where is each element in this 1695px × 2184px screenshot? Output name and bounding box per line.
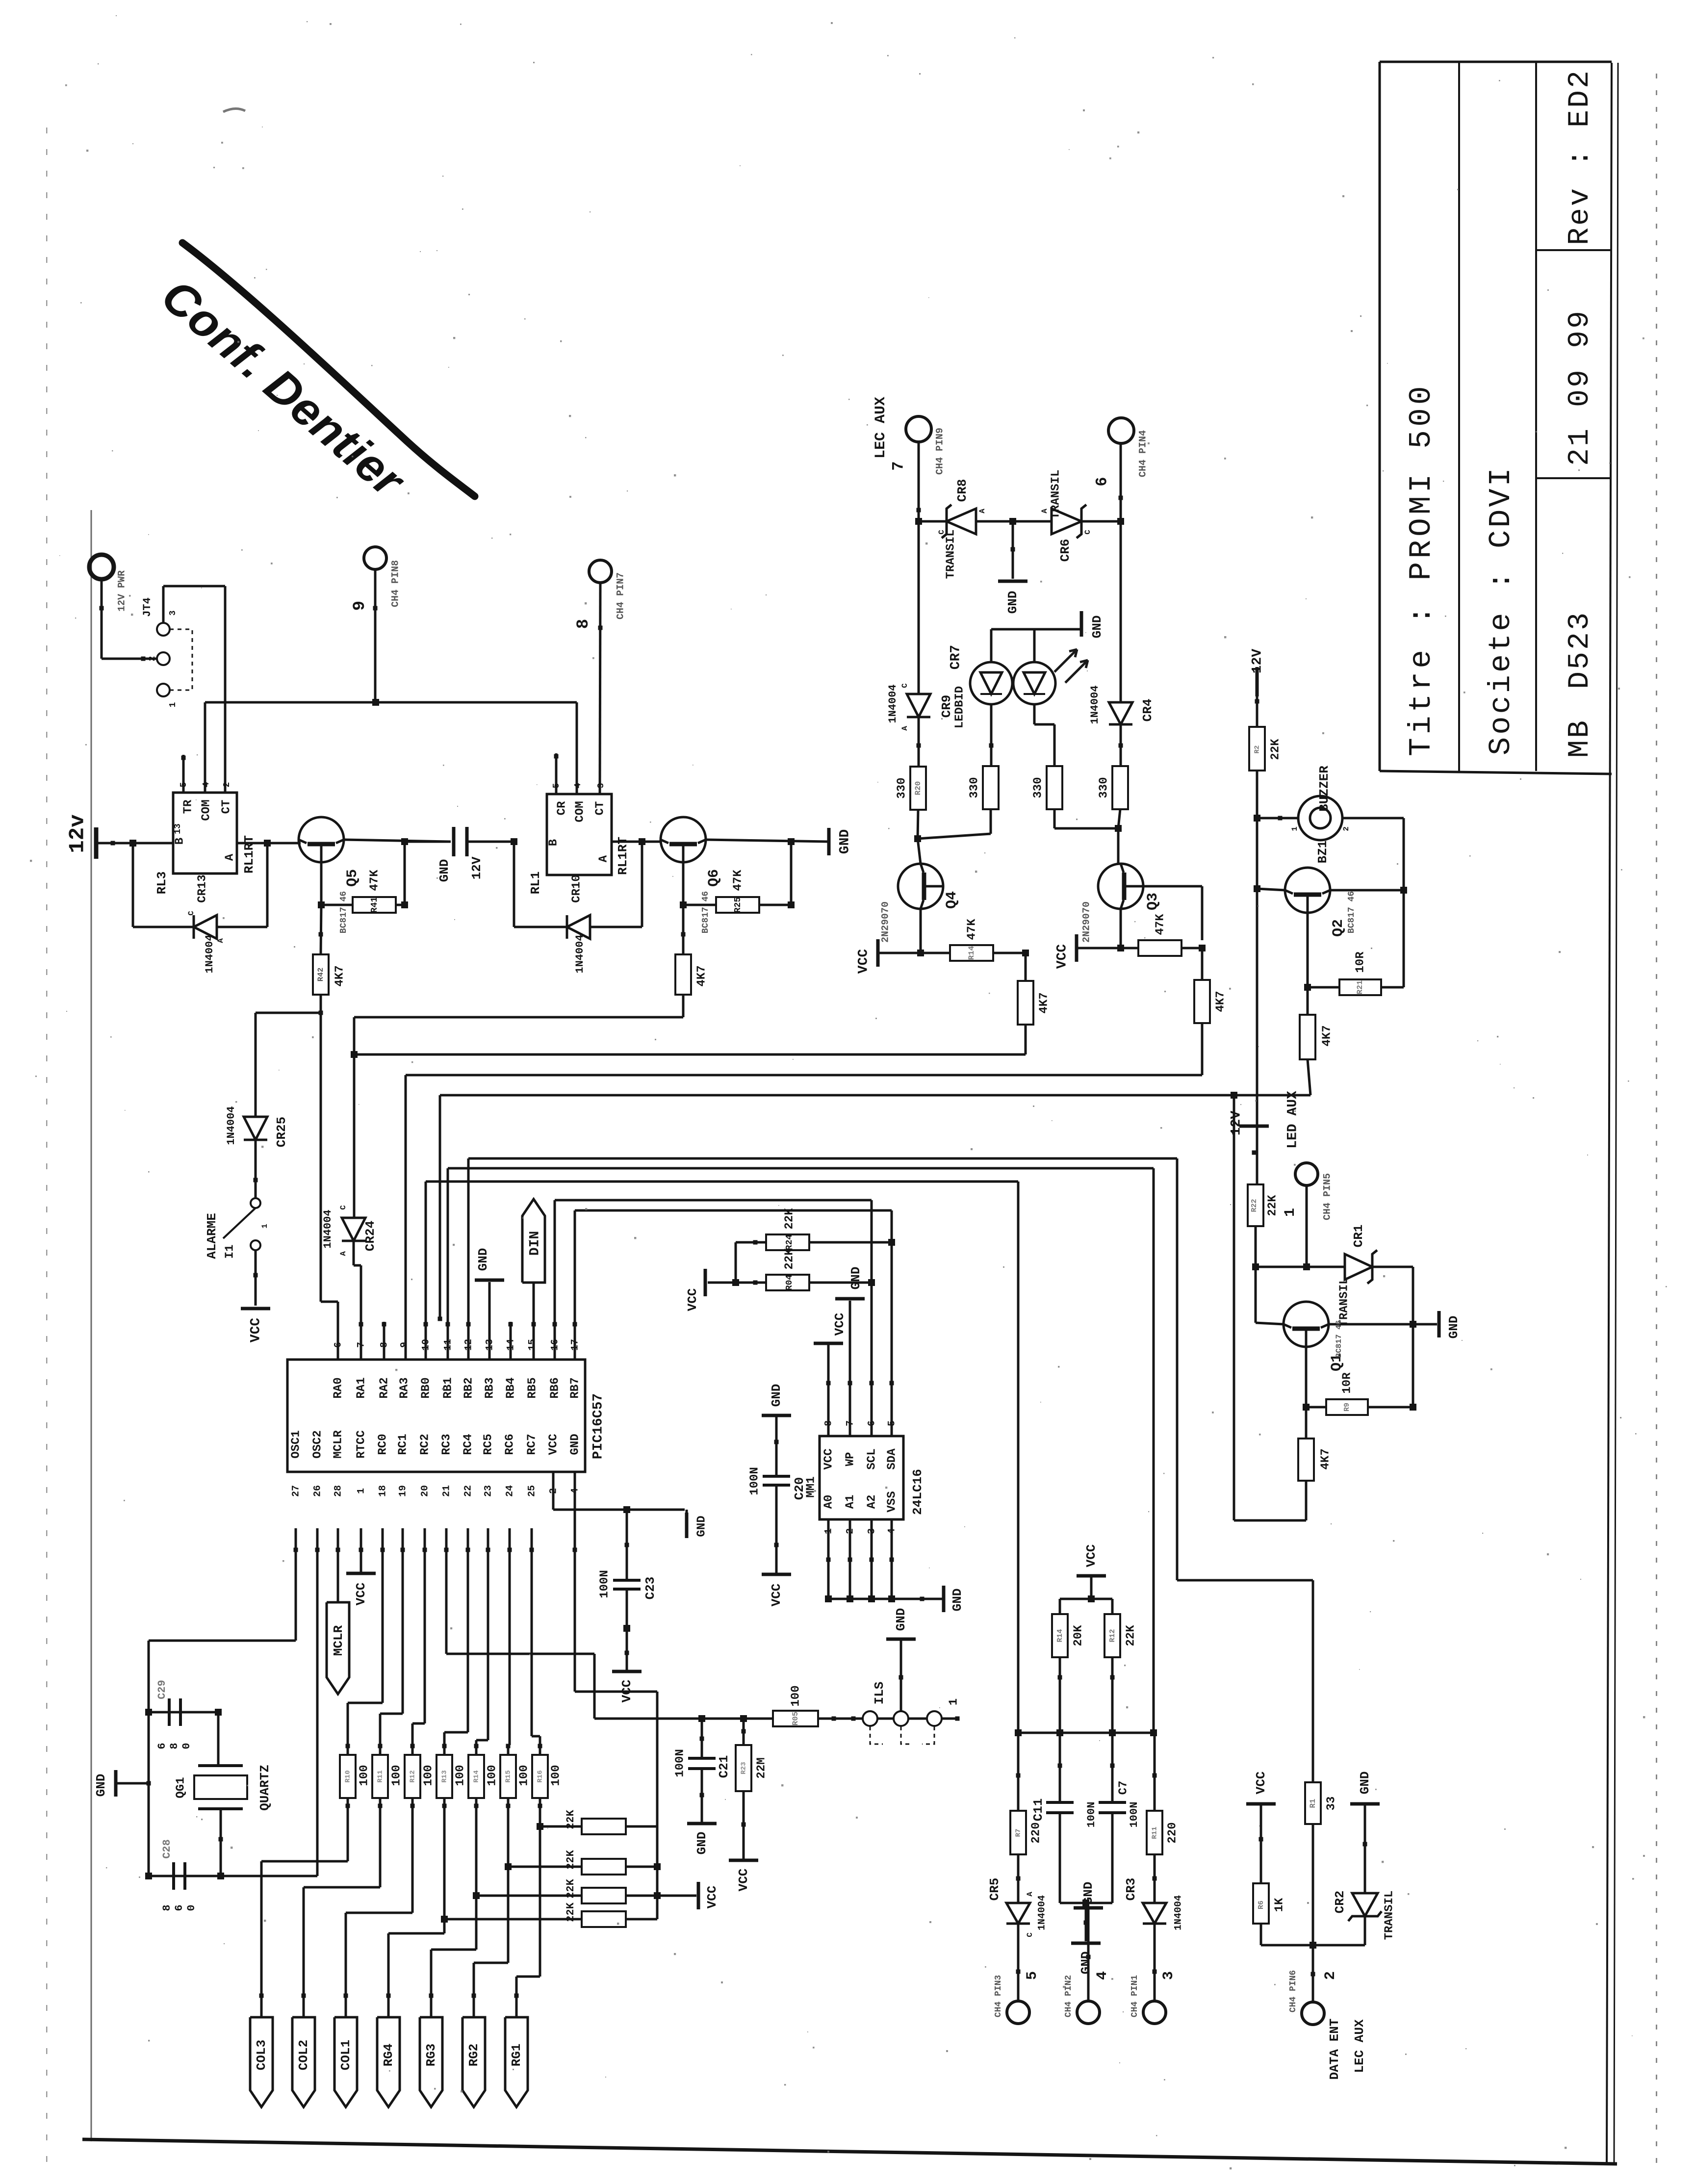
svg-text:2: 2 (222, 782, 232, 788)
svg-text:0: 0 (185, 1904, 198, 1911)
svg-text:R22: R22 (1250, 1199, 1258, 1212)
svg-text:RB2: RB2 (462, 1377, 475, 1398)
svg-text:COM: COM (573, 801, 587, 822)
svg-text:4: 4 (573, 783, 583, 788)
svg-text:R12: R12 (409, 1770, 417, 1782)
svg-text:1N4004: 1N4004 (1173, 1895, 1184, 1930)
svg-text:2N29070: 2N29070 (1081, 901, 1092, 943)
svg-text:22K: 22K (1269, 739, 1282, 760)
svg-text:330: 330 (1097, 777, 1110, 798)
svg-text:10: 10 (420, 1339, 432, 1351)
svg-text:1N4004: 1N4004 (204, 934, 216, 973)
svg-text:A2: A2 (865, 1495, 878, 1509)
svg-text:QUARTZ: QUARTZ (257, 1765, 272, 1811)
svg-text:R15: R15 (505, 1770, 513, 1782)
svg-text:CR24: CR24 (363, 1221, 378, 1251)
svg-text:CR8: CR8 (955, 479, 970, 502)
svg-text:A: A (1026, 1892, 1034, 1897)
svg-text:7: 7 (889, 461, 907, 470)
svg-text:100N: 100N (673, 1749, 687, 1777)
svg-text:Q4: Q4 (944, 891, 960, 909)
svg-text:CR9: CR9 (939, 695, 954, 718)
svg-text:1N4004: 1N4004 (1089, 685, 1101, 724)
svg-text:100N: 100N (1128, 1802, 1140, 1828)
svg-text:1: 1 (947, 1698, 960, 1705)
svg-text:RB0: RB0 (419, 1377, 433, 1398)
svg-text:100: 100 (390, 1765, 403, 1786)
svg-text:4: 4 (202, 782, 211, 787)
svg-text:CH4 PIN2: CH4 PIN2 (1064, 1975, 1074, 2017)
svg-text:R24: R24 (785, 1234, 795, 1251)
svg-text:CR10: CR10 (570, 874, 583, 903)
svg-text:VCC: VCC (822, 1448, 835, 1469)
svg-text:33: 33 (1325, 1797, 1338, 1811)
svg-text:C21: C21 (717, 1755, 731, 1778)
svg-text:100N: 100N (1085, 1802, 1098, 1828)
svg-text:A: A (900, 726, 909, 731)
svg-text:BC817 46: BC817 46 (339, 891, 349, 933)
svg-text:R12: R12 (1108, 1629, 1117, 1642)
svg-text:12V: 12V (1250, 649, 1265, 674)
svg-text:R16: R16 (537, 1770, 544, 1782)
svg-text:2: 2 (148, 656, 157, 662)
svg-text:GND: GND (837, 829, 852, 854)
svg-text:TRANSIL: TRANSIL (1383, 1891, 1396, 1940)
svg-text:VCC: VCC (705, 1886, 719, 1909)
svg-text:CR13: CR13 (196, 874, 209, 903)
svg-text:R04: R04 (785, 1275, 795, 1291)
svg-text:Q3: Q3 (1145, 893, 1161, 910)
svg-text:C23: C23 (643, 1577, 658, 1600)
svg-text:20K: 20K (1072, 1625, 1085, 1646)
svg-text:SCL: SCL (865, 1448, 878, 1469)
svg-text:C11: C11 (1031, 1799, 1046, 1822)
svg-text:GND: GND (476, 1248, 490, 1271)
svg-text:VCC: VCC (1084, 1544, 1099, 1567)
svg-text:220: 220 (1166, 1822, 1179, 1843)
svg-text:1N4004: 1N4004 (1036, 1895, 1048, 1930)
svg-text:R14: R14 (1056, 1629, 1064, 1642)
svg-text:22K: 22K (1266, 1195, 1279, 1216)
svg-text:COL1: COL1 (338, 2040, 353, 2070)
svg-text:8: 8 (574, 619, 593, 629)
svg-text:R9: R9 (1343, 1403, 1351, 1412)
svg-text:8: 8 (168, 1743, 180, 1749)
svg-text:C: C (187, 911, 196, 916)
svg-text:GND: GND (848, 1267, 863, 1290)
svg-text:VCC: VCC (354, 1583, 368, 1606)
svg-text:3: 3 (1160, 1971, 1177, 1980)
svg-text:A: A (223, 853, 236, 861)
svg-text:VCC: VCC (685, 1288, 700, 1311)
svg-text:CT: CT (220, 800, 233, 814)
svg-text:MB: MB (1564, 719, 1597, 758)
svg-text:12V: 12V (1229, 1111, 1244, 1136)
svg-text:C: C (900, 683, 909, 688)
svg-text:GND: GND (1079, 1952, 1093, 1975)
svg-text:R13: R13 (441, 1770, 449, 1782)
svg-text:100: 100 (486, 1765, 499, 1786)
svg-text:CR3: CR3 (1124, 1878, 1138, 1901)
svg-text:GND: GND (437, 859, 452, 882)
svg-text:C: C (1026, 1932, 1034, 1937)
svg-text:47K: 47K (1154, 914, 1167, 935)
svg-text:10R: 10R (1354, 951, 1367, 973)
svg-text:Q6: Q6 (706, 869, 722, 887)
svg-text:100: 100 (422, 1765, 435, 1786)
svg-text:ILS: ILS (872, 1682, 887, 1705)
svg-text:B: B (173, 838, 186, 845)
svg-text:6: 6 (866, 1420, 877, 1426)
svg-text:TR: TR (181, 799, 195, 814)
svg-text:22M: 22M (755, 1757, 768, 1778)
svg-text:20: 20 (419, 1485, 431, 1497)
svg-text:ALARME: ALARME (205, 1213, 219, 1259)
svg-text:MCLR: MCLR (331, 1625, 346, 1656)
svg-text:DIN: DIN (527, 1231, 542, 1256)
svg-text:CH4 PIN1: CH4 PIN1 (1130, 1975, 1140, 2018)
svg-text:BC817 46: BC817 46 (701, 891, 711, 933)
svg-text:23: 23 (483, 1485, 494, 1497)
svg-text:RA1: RA1 (355, 1377, 368, 1398)
svg-text:RB4: RB4 (504, 1377, 517, 1398)
svg-text:A0: A0 (822, 1495, 835, 1509)
svg-text:CH4 PIN8: CH4 PIN8 (390, 560, 401, 607)
svg-text:Titre : PROMI 500: Titre : PROMI 500 (1404, 383, 1439, 756)
svg-text:19: 19 (397, 1485, 409, 1497)
svg-text:5: 5 (552, 783, 562, 789)
svg-text:22K: 22K (783, 1248, 796, 1270)
svg-text:GND: GND (769, 1384, 784, 1407)
svg-text:CR1: CR1 (1351, 1225, 1366, 1248)
svg-text:9: 9 (351, 601, 369, 611)
svg-text:4K7: 4K7 (695, 965, 708, 986)
svg-text:RC6: RC6 (503, 1434, 516, 1455)
svg-text:Q2: Q2 (1330, 919, 1347, 937)
svg-text:CH4 PIN9: CH4 PIN9 (934, 428, 946, 475)
svg-text:26: 26 (312, 1485, 323, 1497)
svg-text:22: 22 (462, 1485, 474, 1497)
svg-text:VCC: VCC (769, 1584, 784, 1607)
svg-text:24: 24 (504, 1485, 515, 1497)
svg-text:R23: R23 (740, 1762, 748, 1774)
svg-text:6: 6 (333, 1342, 344, 1348)
svg-text:4K7: 4K7 (333, 965, 346, 986)
svg-text:A: A (978, 509, 987, 514)
svg-text:CR: CR (555, 801, 568, 815)
svg-text:I1: I1 (223, 1245, 236, 1259)
svg-text:GND: GND (950, 1589, 965, 1612)
svg-text:220: 220 (1029, 1822, 1043, 1843)
svg-text:28: 28 (333, 1485, 344, 1497)
svg-text:3: 3 (596, 783, 606, 789)
svg-text:4K7: 4K7 (1320, 1025, 1334, 1046)
svg-text:VCC: VCC (248, 1318, 263, 1343)
svg-text:1N4004: 1N4004 (225, 1106, 237, 1145)
svg-text:13: 13 (173, 823, 183, 834)
svg-text:CR6: CR6 (1058, 539, 1073, 562)
svg-text:1K: 1K (1273, 1898, 1286, 1912)
svg-text:21: 21 (441, 1485, 452, 1497)
svg-text:1N4004: 1N4004 (322, 1209, 334, 1248)
svg-text:RA2: RA2 (378, 1377, 391, 1398)
svg-text:R6: R6 (1257, 1901, 1265, 1909)
svg-text:CR7: CR7 (948, 645, 963, 669)
svg-text:LEC AUX: LEC AUX (873, 397, 889, 459)
svg-text:BC817 46: BC817 46 (1347, 891, 1357, 933)
svg-text:9: 9 (399, 1342, 410, 1348)
svg-text:R20: R20 (914, 781, 923, 796)
svg-text:GND: GND (1081, 1882, 1096, 1905)
svg-text:CH4 PIN4: CH4 PIN4 (1137, 430, 1149, 477)
svg-text:1N4004: 1N4004 (574, 934, 586, 973)
svg-text:GND: GND (695, 1516, 708, 1537)
svg-text:VCC: VCC (736, 1869, 751, 1892)
svg-text:RC3: RC3 (440, 1434, 453, 1455)
svg-text:12V PWR: 12V PWR (116, 570, 128, 612)
svg-text:330: 330 (968, 777, 981, 798)
svg-text:21 09 99: 21 09 99 (1564, 309, 1597, 466)
svg-text:4K7: 4K7 (1319, 1448, 1332, 1469)
svg-text:100: 100 (454, 1765, 467, 1786)
svg-text:22K: 22K (1124, 1625, 1137, 1646)
svg-text:8: 8 (161, 1904, 173, 1911)
svg-text:RB3: RB3 (483, 1377, 496, 1398)
svg-text:C: C (1083, 530, 1092, 535)
svg-text:OSC1: OSC1 (289, 1430, 303, 1459)
svg-text:RG3: RG3 (424, 2044, 438, 2067)
svg-text:LEDBID: LEDBID (953, 686, 966, 728)
svg-text:R1: R1 (1309, 1799, 1317, 1808)
svg-text:C29: C29 (156, 1680, 168, 1699)
svg-text:1: 1 (260, 1224, 269, 1229)
svg-text:JT4: JT4 (141, 597, 154, 617)
svg-text:330: 330 (1031, 777, 1045, 798)
svg-text:12V: 12V (469, 856, 484, 879)
svg-text:C20: C20 (792, 1477, 807, 1500)
svg-text:RG4: RG4 (381, 2044, 396, 2067)
svg-text:3: 3 (168, 611, 178, 616)
svg-text:VCC: VCC (1254, 1772, 1268, 1795)
svg-text:B: B (547, 839, 560, 846)
svg-text:1: 1 (1290, 826, 1299, 831)
svg-text:R25: R25 (733, 897, 743, 913)
svg-text:R10: R10 (344, 1770, 352, 1782)
svg-text:VCC: VCC (1054, 944, 1070, 969)
svg-text:A: A (1040, 509, 1049, 514)
svg-text:COM: COM (200, 799, 213, 821)
svg-text:C: C (339, 1205, 348, 1210)
svg-text:OSC2: OSC2 (311, 1430, 324, 1459)
svg-text:4K7: 4K7 (1037, 992, 1051, 1013)
svg-text:MCLR: MCLR (332, 1430, 345, 1459)
svg-text:CR25: CR25 (274, 1117, 289, 1147)
svg-text:RL1: RL1 (528, 872, 543, 895)
svg-text:TRANSIL: TRANSIL (1049, 470, 1062, 519)
svg-text:R05: R05 (791, 1712, 800, 1726)
svg-text:R14: R14 (967, 946, 976, 960)
svg-text:WP: WP (844, 1452, 857, 1466)
svg-text:RC5: RC5 (482, 1434, 495, 1455)
svg-text:RB6: RB6 (548, 1377, 562, 1398)
svg-text:18: 18 (377, 1485, 388, 1497)
svg-text:RC7: RC7 (525, 1434, 539, 1455)
svg-text:47K: 47K (965, 919, 978, 940)
svg-text:CR5: CR5 (987, 1878, 1002, 1901)
svg-text:CH4 PIN7: CH4 PIN7 (615, 572, 626, 619)
svg-text:BZ1: BZ1 (1315, 841, 1330, 864)
svg-text:QG1: QG1 (174, 1777, 187, 1798)
svg-text:1N4004: 1N4004 (887, 684, 899, 723)
svg-text:R7: R7 (1015, 1829, 1023, 1837)
svg-text:Q5: Q5 (344, 869, 361, 887)
svg-text:RA0: RA0 (332, 1377, 345, 1398)
svg-text:10R: 10R (1340, 1372, 1354, 1394)
svg-text:GND: GND (1090, 616, 1104, 639)
svg-text:D523: D523 (1564, 611, 1597, 689)
svg-text:6: 6 (1093, 477, 1111, 486)
svg-text:GND: GND (568, 1434, 582, 1455)
svg-text:25: 25 (526, 1485, 538, 1497)
svg-text:330: 330 (895, 777, 908, 798)
svg-text:A1: A1 (844, 1495, 857, 1509)
svg-text:100: 100 (517, 1765, 531, 1786)
svg-text:BC817 46: BC817 46 (1335, 1320, 1343, 1358)
svg-text:TRANSIL: TRANSIL (1337, 1278, 1351, 1327)
svg-text:100: 100 (789, 1685, 802, 1706)
svg-text:RB7: RB7 (568, 1377, 582, 1398)
svg-text:RC1: RC1 (396, 1434, 410, 1455)
svg-text:Rev : ED2: Rev : ED2 (1564, 69, 1597, 245)
svg-text:17: 17 (569, 1339, 581, 1351)
svg-text:24LC16: 24LC16 (910, 1469, 925, 1515)
svg-text:R21: R21 (1356, 980, 1364, 995)
svg-text:RL3: RL3 (154, 872, 169, 895)
svg-text:GND: GND (1005, 591, 1020, 614)
svg-text:2: 2 (1342, 826, 1351, 831)
svg-text:1: 1 (1282, 1208, 1299, 1217)
svg-text:C7: C7 (1117, 1781, 1130, 1795)
svg-text:RG1: RG1 (509, 2044, 524, 2067)
svg-text:2: 2 (1322, 1971, 1339, 1980)
svg-text:GND: GND (894, 1608, 908, 1631)
svg-text:100: 100 (549, 1765, 563, 1786)
svg-text:100N: 100N (748, 1467, 761, 1495)
svg-text:TRANSIL: TRANSIL (944, 530, 957, 579)
svg-text:DATA ENT: DATA ENT (1327, 2019, 1342, 2080)
svg-text:RG2: RG2 (466, 2044, 481, 2067)
svg-text:6: 6 (173, 1904, 185, 1911)
svg-text:GND: GND (94, 1774, 108, 1797)
svg-text:12v: 12v (66, 814, 90, 853)
svg-text:R41: R41 (370, 897, 380, 913)
svg-text:SDA: SDA (885, 1448, 899, 1470)
svg-text:16: 16 (549, 1339, 561, 1351)
svg-text:100: 100 (358, 1765, 371, 1786)
svg-text:LED AUX: LED AUX (1285, 1091, 1300, 1149)
svg-text:47K: 47K (368, 870, 381, 891)
svg-text:RB5: RB5 (526, 1377, 539, 1398)
svg-text:LEC AUX: LEC AUX (1352, 2019, 1367, 2073)
svg-text:2N29070: 2N29070 (880, 901, 891, 943)
svg-text:R42: R42 (316, 968, 325, 982)
svg-text:VCC: VCC (547, 1434, 560, 1455)
svg-text:11: 11 (442, 1339, 454, 1351)
svg-text:C28: C28 (161, 1839, 173, 1859)
svg-text:RC2: RC2 (418, 1434, 432, 1455)
svg-text:RC4: RC4 (462, 1434, 475, 1455)
svg-text:R14: R14 (473, 1770, 481, 1782)
svg-text:RTCC: RTCC (355, 1430, 368, 1459)
svg-text:BUZZER: BUZZER (1317, 766, 1332, 812)
svg-text:VSS: VSS (885, 1491, 899, 1512)
svg-text:100N: 100N (598, 1570, 611, 1598)
svg-text:Societe : CDVI: Societe : CDVI (1484, 465, 1518, 755)
svg-text:A: A (216, 938, 225, 943)
svg-text:22K: 22K (783, 1208, 796, 1230)
svg-text:VCC: VCC (856, 949, 871, 974)
svg-text:1: 1 (168, 702, 178, 707)
svg-text:5: 5 (1024, 1971, 1041, 1980)
svg-text:5: 5 (179, 782, 189, 788)
svg-text:27: 27 (290, 1485, 302, 1497)
svg-text:CT: CT (593, 801, 607, 816)
svg-text:R2: R2 (1254, 745, 1261, 754)
svg-text:VCC: VCC (832, 1313, 847, 1336)
svg-text:C: C (937, 530, 946, 535)
svg-text:RA3: RA3 (398, 1377, 411, 1398)
svg-text:1: 1 (356, 1488, 367, 1494)
svg-text:5: 5 (886, 1420, 898, 1426)
svg-text:6: 6 (156, 1743, 168, 1749)
svg-text:CR4: CR4 (1140, 699, 1155, 722)
svg-text:7: 7 (356, 1342, 367, 1348)
svg-text:A: A (339, 1251, 348, 1256)
svg-text:CH4 PIN3: CH4 PIN3 (994, 1975, 1003, 2017)
svg-text:R11: R11 (1151, 1826, 1159, 1839)
svg-text:4K7: 4K7 (1214, 991, 1227, 1012)
svg-text:GND: GND (694, 1832, 709, 1855)
svg-text:0: 0 (180, 1743, 193, 1749)
svg-text:GND: GND (1446, 1316, 1461, 1339)
svg-text:CH4 PIN6: CH4 PIN6 (1288, 1970, 1298, 2012)
svg-text:COL3: COL3 (254, 2040, 269, 2070)
svg-text:GND: GND (1358, 1772, 1372, 1795)
svg-text:RL1RT: RL1RT (242, 835, 257, 874)
svg-text:CH4 PIN5: CH4 PIN5 (1322, 1173, 1333, 1220)
svg-text:CR2: CR2 (1333, 1891, 1347, 1914)
svg-text:R11: R11 (377, 1770, 385, 1782)
svg-text:4: 4 (1094, 1971, 1111, 1980)
svg-text:COL2: COL2 (296, 2040, 311, 2070)
svg-text:47K: 47K (731, 870, 745, 891)
svg-text:A: A (597, 855, 610, 862)
svg-text:RC0: RC0 (376, 1434, 389, 1455)
svg-text:12: 12 (463, 1339, 474, 1351)
svg-text:PIC16C57: PIC16C57 (591, 1393, 606, 1459)
